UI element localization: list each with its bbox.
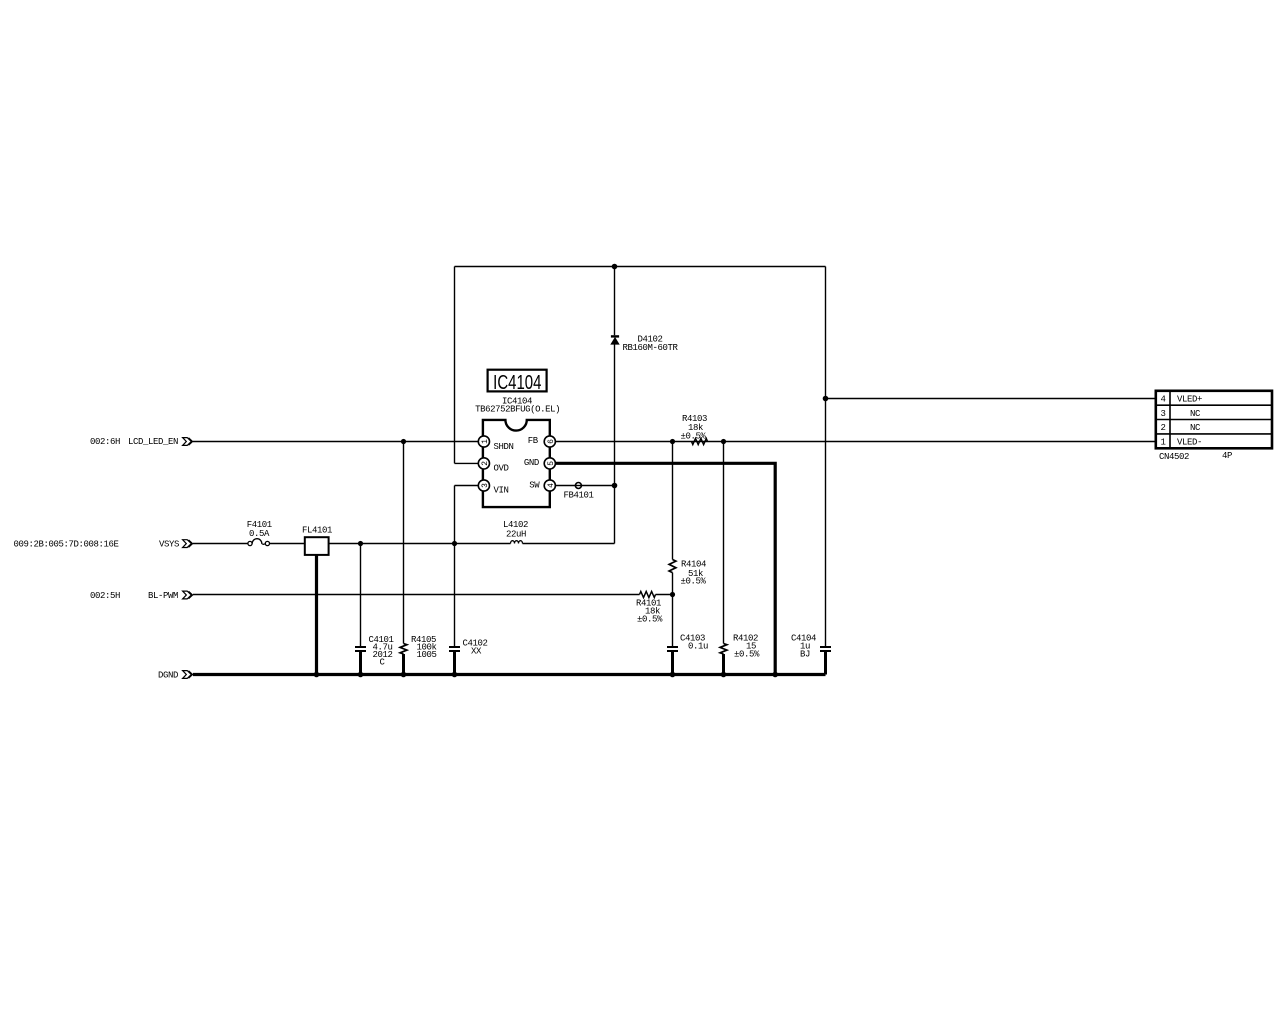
svg-text:BJ: BJ xyxy=(800,650,810,660)
pin 1 SHDN xyxy=(478,436,513,452)
off-page connector DGND xyxy=(183,671,193,679)
svg-text:NC: NC xyxy=(1190,409,1201,419)
junction DGND/R4102 xyxy=(721,672,727,678)
svg-text:009:2B:005:7D:008:16E: 009:2B:005:7D:008:16E xyxy=(14,540,119,550)
svg-text:0.5A: 0.5A xyxy=(249,529,270,539)
svg-text:L4102: L4102 xyxy=(503,520,528,530)
svg-text:±0.5%: ±0.5% xyxy=(734,650,760,660)
svg-text:0.1u: 0.1u xyxy=(688,642,708,652)
svg-text:22uH: 22uH xyxy=(506,530,526,540)
junction DGND/IC-GND xyxy=(772,672,778,678)
svg-text:FB4101: FB4101 xyxy=(564,491,594,501)
resistor R4101 18k ±0.5% xyxy=(636,592,663,625)
wire GND thick to DGND xyxy=(555,463,775,674)
pin 6 FB xyxy=(528,436,556,447)
off-page connector VSYS xyxy=(183,540,193,548)
svg-text:VSYS: VSYS xyxy=(159,540,179,550)
svg-text:3: 3 xyxy=(1160,409,1165,419)
junction VSYS/VIN/L4102 xyxy=(452,541,457,546)
off-page connector LCD_LED_EN xyxy=(183,438,193,446)
net label 002:6H LCD_LED_EN xyxy=(90,437,178,447)
pin 3 VIN xyxy=(478,480,508,496)
svg-text:FL4101: FL4101 xyxy=(302,526,332,536)
wire output rail down to C4104 xyxy=(825,267,827,647)
filter FL4101 xyxy=(302,526,332,555)
svg-text:6: 6 xyxy=(547,439,556,444)
svg-text:FB: FB xyxy=(528,436,539,446)
wire LCD_LED_EN to SHDN pin1 xyxy=(193,441,478,443)
junction FB/R4102 xyxy=(721,439,726,444)
connector CN4502 4P xyxy=(1156,391,1272,462)
svg-text:LCD_LED_EN: LCD_LED_EN xyxy=(128,437,178,447)
pin 4 SW xyxy=(529,480,556,491)
IC4104 boxed reference xyxy=(488,370,547,394)
svg-text:NC: NC xyxy=(1190,423,1201,433)
svg-text:1005: 1005 xyxy=(417,650,437,660)
svg-text:1: 1 xyxy=(481,439,490,444)
wire SW riser xyxy=(614,344,616,544)
junction DGND/FL4101 xyxy=(314,672,320,678)
junction VSYS/C4101 xyxy=(358,541,363,546)
inductor L4102 22uH xyxy=(455,520,615,544)
net label 009:2B:005:7D:008:16E VSYS xyxy=(14,540,180,550)
junction R4101/R4104/C4103 xyxy=(670,592,675,597)
resistor R4103 18k ±0.5% xyxy=(681,414,708,445)
wire FL4101 to VIN node xyxy=(329,543,455,545)
svg-text:4: 4 xyxy=(1160,395,1165,405)
ground bus DGND xyxy=(193,673,826,676)
wire fuse to FL4101 xyxy=(270,543,305,545)
wire FL4101 ground leg xyxy=(315,556,318,675)
svg-text:DGND: DGND xyxy=(158,671,178,681)
svg-text:SW: SW xyxy=(529,481,540,491)
svg-text:2: 2 xyxy=(481,461,490,466)
fuse F4101 0.5A xyxy=(247,520,272,546)
junction DGND/C4103 xyxy=(670,672,676,678)
svg-text:BL-PWM: BL-PWM xyxy=(148,591,178,601)
wire OVD riser xyxy=(455,267,479,464)
pin 2 OVD xyxy=(478,458,508,474)
svg-text:VLED+: VLED+ xyxy=(1177,395,1202,405)
svg-text:XX: XX xyxy=(471,647,482,657)
IC4104 part labels xyxy=(475,397,560,415)
svg-text:RB160M-60TR: RB160M-60TR xyxy=(623,343,679,353)
wire SW to FB4101 junction xyxy=(555,485,614,487)
svg-text:5: 5 xyxy=(547,461,556,466)
svg-text:1: 1 xyxy=(1160,437,1165,447)
svg-text:VIN: VIN xyxy=(494,486,509,496)
svg-text:CN4502: CN4502 xyxy=(1159,452,1189,462)
top rail wire xyxy=(455,266,826,268)
junction top rail / D4102 xyxy=(612,264,618,270)
svg-text:±0.5%: ±0.5% xyxy=(637,615,663,625)
wire BL-PWM to R4101 xyxy=(193,594,673,596)
svg-text:4P: 4P xyxy=(1222,451,1232,461)
wire diode cathode to top rail xyxy=(614,267,616,336)
svg-text:2: 2 xyxy=(1160,423,1165,433)
wire VSYS to fuse xyxy=(193,543,248,545)
pin 5 GND xyxy=(524,458,556,469)
capacitor C4101 4.7u 2012 C xyxy=(355,544,394,675)
op IC4104 body xyxy=(483,420,550,507)
diode D4102 RB160M-60TR xyxy=(611,335,679,354)
junction LCD_LED_EN/R4105 xyxy=(401,439,406,444)
capacitor C4102 XX xyxy=(449,544,488,675)
svg-text:GND: GND xyxy=(524,458,539,468)
svg-text:SHDN: SHDN xyxy=(494,442,514,452)
junction DGND/C4102 xyxy=(452,672,458,678)
resistor R4104 51k ±0.5% xyxy=(669,442,706,595)
wire FB / VLED- net xyxy=(555,441,1155,443)
wire VIN stub xyxy=(455,486,479,544)
svg-text:VLED-: VLED- xyxy=(1177,437,1202,447)
capacitor C4103 0.1u xyxy=(667,595,708,675)
svg-text:±0.5%: ±0.5% xyxy=(681,432,707,442)
capacitor C4104 1u BJ xyxy=(791,634,831,675)
svg-text:OVD: OVD xyxy=(494,464,509,474)
resistor R4102 15 ±0.5% xyxy=(720,442,760,675)
wire VLED+ to connector xyxy=(826,398,1156,400)
ferrite bead FB4101 xyxy=(564,483,594,501)
svg-text:R4104: R4104 xyxy=(681,560,706,570)
off-page connector BL-PWM xyxy=(183,591,193,599)
svg-text:002:6H: 002:6H xyxy=(90,437,120,447)
svg-text:3: 3 xyxy=(481,483,490,488)
svg-text:002:5H: 002:5H xyxy=(90,591,120,601)
svg-text:±0.5%: ±0.5% xyxy=(681,577,707,587)
junction SW/FB4101 xyxy=(612,483,618,489)
svg-text:4: 4 xyxy=(547,483,556,488)
junction DGND/R4105 xyxy=(401,672,407,678)
svg-text:IC4104: IC4104 xyxy=(493,371,541,394)
junction FB/R4104 xyxy=(670,439,675,444)
svg-text:TB62752BFUG(O.EL): TB62752BFUG(O.EL) xyxy=(475,405,560,415)
resistor R4105 100k 1005 xyxy=(400,442,436,675)
junction DGND/C4101 xyxy=(358,672,364,678)
junction VLED+/C4104 xyxy=(823,396,829,402)
net label 002:5H BL-PWM xyxy=(90,591,178,601)
